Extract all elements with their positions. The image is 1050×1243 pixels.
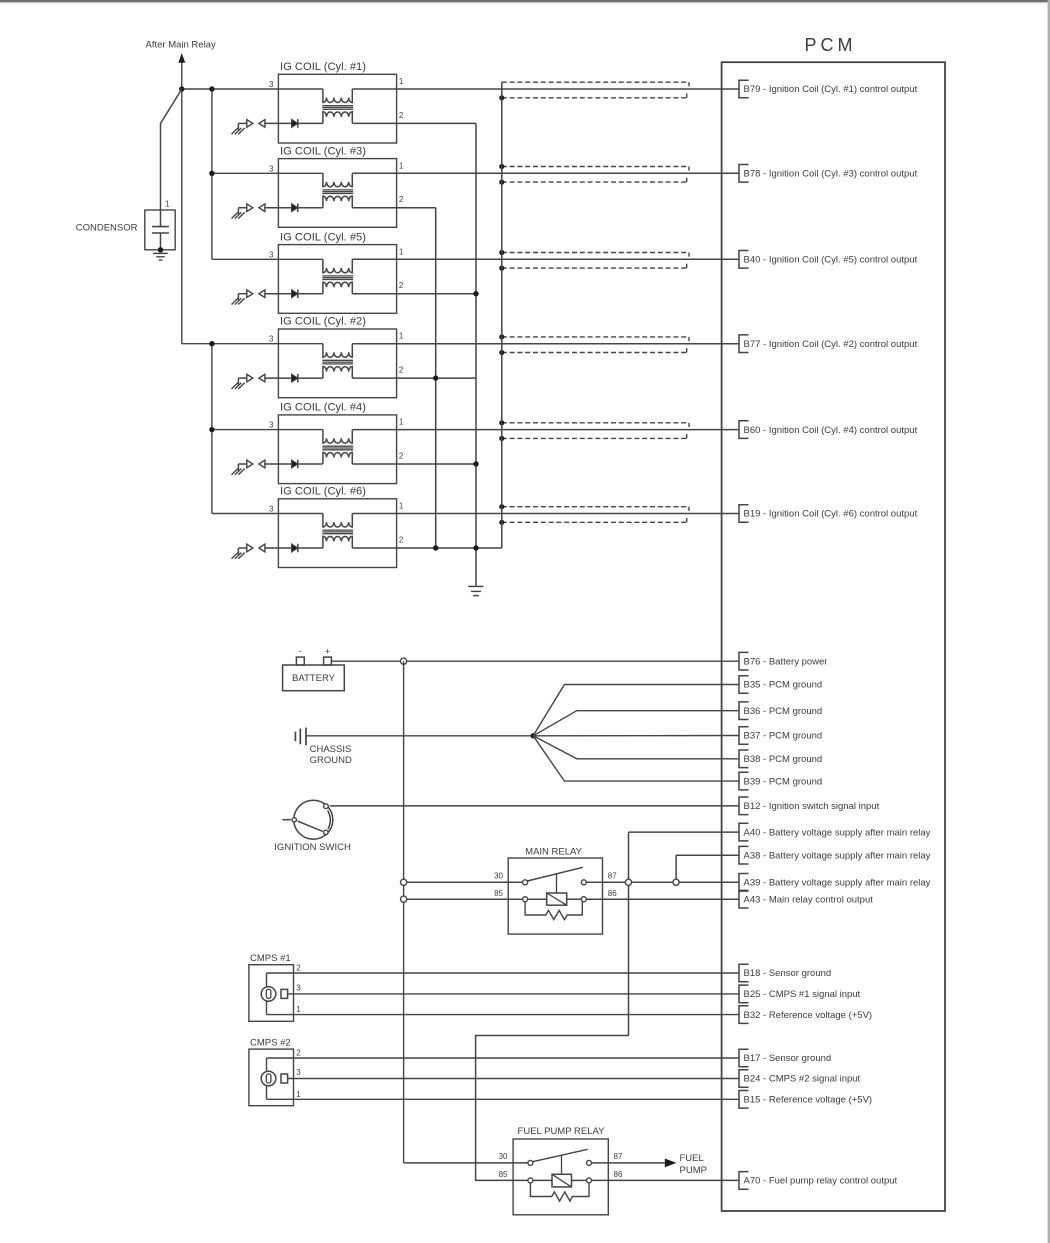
- shield drain junction: [499, 250, 504, 255]
- diode D5: [292, 289, 298, 298]
- svg-text:-: -: [299, 646, 302, 656]
- connector junction 30 feed: [401, 879, 407, 885]
- wire CMPS #1 pin 3 to PCM: [288, 993, 739, 995]
- svg-text:2: 2: [296, 964, 301, 973]
- svg-text:3: 3: [296, 1068, 301, 1077]
- wire secondary return (coils 1-5-4) vertical: [475, 123, 477, 585]
- svg-text:2: 2: [296, 1049, 301, 1058]
- shield of coil T1 wire: [502, 82, 689, 98]
- ignition coil T2 (IG COIL Cyl. #2): [278, 316, 396, 398]
- junction: [473, 291, 478, 296]
- junction: [473, 545, 478, 550]
- wire diode D1 to T1 secondary: [298, 122, 323, 124]
- capacitor C1 (CONDENSOR): [145, 210, 175, 250]
- wire coil T6 pin 2: [352, 547, 502, 549]
- wire to PCM B36: [533, 711, 739, 736]
- svg-text:3: 3: [269, 80, 274, 89]
- spark plug P5 gap: [238, 290, 265, 298]
- svg-text:A70 - Fuel pump relay control: A70 - Fuel pump relay control output: [744, 1176, 898, 1187]
- PCM pin B12: [739, 797, 880, 815]
- PCM pin B76: [739, 652, 827, 670]
- K2 pin 87: [587, 1160, 592, 1165]
- wire diode D3 to T3 secondary: [298, 207, 323, 209]
- K2 pin 85: [528, 1178, 533, 1183]
- camshaft position sensor B1 (CMPS #1): [249, 953, 294, 1021]
- junction: [209, 427, 214, 432]
- spark plug P3 ground: [232, 208, 245, 219]
- svg-text:IG COIL (Cyl. #4): IG COIL (Cyl. #4): [280, 402, 366, 414]
- shield drain junction: [499, 350, 504, 355]
- svg-text:IG COIL (Cyl. #6): IG COIL (Cyl. #6): [280, 486, 366, 498]
- spark plug P4 gap: [238, 460, 265, 468]
- svg-text:1: 1: [399, 161, 404, 170]
- svg-text:FUEL: FUEL: [680, 1153, 704, 1164]
- wire bus to coil T4 pin 3: [212, 429, 323, 431]
- wire bus to coil T6 pin 3: [212, 513, 323, 515]
- svg-text:2: 2: [399, 111, 404, 120]
- ground (condensor earth): [153, 253, 167, 260]
- wire battery bus to K1 pin 30: [404, 881, 523, 883]
- ignition coil T1 (IG COIL Cyl. #1): [278, 61, 396, 143]
- scan border top: [0, 0, 1050, 2]
- svg-text:B12 - Ignition switch signal i: B12 - Ignition switch signal input: [744, 801, 880, 812]
- spark plug P4 ground: [232, 464, 245, 475]
- PCM pin A39: [739, 874, 931, 892]
- diode D6: [292, 544, 298, 553]
- svg-text:A39 - Battery voltage supply a: A39 - Battery voltage supply after main …: [744, 878, 931, 889]
- svg-text:PCM: PCM: [805, 35, 857, 55]
- wire after-main-relay to coil T1 pin 3: [182, 88, 323, 90]
- shield drain junction: [499, 164, 504, 169]
- shield of coil T4 wire: [502, 423, 689, 439]
- wire K1 87 to PCM A39: [586, 881, 739, 883]
- K2 resistor: [530, 1183, 589, 1201]
- PCM pin B77: [739, 335, 918, 353]
- wire diode D4 to T4 secondary: [298, 463, 323, 465]
- PCM pin A43: [739, 890, 873, 908]
- junction: [433, 545, 438, 550]
- svg-text:86: 86: [614, 1170, 623, 1179]
- wire CMPS #2 pin 3 to PCM: [288, 1078, 739, 1080]
- transformer T5 secondary winding: [323, 282, 352, 294]
- PCM pin A70: [739, 1172, 898, 1190]
- svg-text:GROUND: GROUND: [310, 755, 352, 766]
- PCM pin A38: [739, 846, 931, 864]
- shield of coil T2 wire: [502, 337, 689, 353]
- wire to PCM B37: [533, 735, 739, 737]
- wire coil T5 pin 1 to PCM: [352, 258, 739, 260]
- svg-text:B32 - Reference voltage (+5V): B32 - Reference voltage (+5V): [744, 1010, 873, 1021]
- svg-text:CMPS #2: CMPS #2: [250, 1037, 291, 1048]
- ground (ignition secondary earth): [468, 586, 483, 595]
- transformer T6 core: [322, 529, 353, 531]
- svg-text:A40 - Battery voltage supply a: A40 - Battery voltage supply after main …: [744, 827, 931, 838]
- spark plug P3 gap: [238, 204, 265, 212]
- wire secondary return (coil 3) vertical: [435, 208, 437, 548]
- svg-text:2: 2: [399, 195, 404, 204]
- svg-text:B77 - Ignition Coil (Cyl. #2): B77 - Ignition Coil (Cyl. #2) control ou…: [744, 339, 918, 350]
- K1 relay coil: [528, 893, 582, 905]
- shield drain junction: [499, 180, 504, 185]
- svg-text:IG COIL (Cyl. #2): IG COIL (Cyl. #2): [280, 316, 366, 328]
- ignition coil T6 (IG COIL Cyl. #6): [278, 486, 396, 568]
- shield drain junction: [499, 504, 504, 509]
- transformer T6 secondary winding: [323, 536, 352, 548]
- wire CMPS #2 pin 1 to PCM: [267, 1098, 740, 1100]
- junction: [209, 86, 214, 91]
- wire supply bus B (coils 2-4-6): [211, 344, 213, 514]
- spark plug P2 ground: [232, 378, 245, 389]
- svg-text:1: 1: [399, 77, 404, 86]
- wire CMPS #1 pin 2 to PCM: [267, 972, 740, 974]
- transformer T1 primary winding: [323, 89, 352, 103]
- wire coil T3 pin 1 to PCM: [352, 172, 739, 174]
- K2 armature link: [561, 1155, 563, 1174]
- diode D4: [292, 460, 298, 469]
- svg-text:1: 1: [399, 418, 404, 427]
- wire battery + to PCM B76: [331, 660, 739, 662]
- svg-text:2: 2: [399, 452, 404, 461]
- transformer T4 core: [322, 445, 353, 447]
- spark plug P5 ground: [232, 294, 245, 305]
- relay K1 (MAIN RELAY): [508, 847, 602, 935]
- connector junction A40 branch: [625, 879, 631, 885]
- svg-text:3: 3: [269, 164, 274, 173]
- transformer T4 primary winding: [323, 430, 352, 444]
- PCM pin B40: [739, 251, 918, 269]
- svg-text:1: 1: [165, 200, 170, 209]
- connector junction A38 branch: [673, 879, 679, 885]
- svg-text:B39 - PCM ground: B39 - PCM ground: [744, 776, 823, 787]
- K1 resistor: [525, 902, 582, 920]
- connector junction 85 feed: [401, 896, 407, 902]
- K1 pin 86: [581, 897, 586, 902]
- K1 pin 30: [523, 880, 528, 885]
- wire CMPS #1 pin 1 to PCM: [267, 1014, 740, 1016]
- wire spark gap to diode D2: [265, 377, 292, 379]
- wire diode D5 to T5 secondary: [298, 293, 323, 295]
- wire to PCM B35: [533, 685, 739, 736]
- ignition coil T5 (IG COIL Cyl. #5): [278, 231, 396, 313]
- shield drain junction: [499, 266, 504, 271]
- K1 switch blade 30-87: [527, 867, 583, 881]
- wire 87 feed to PCM A40: [629, 831, 740, 833]
- PCM pin B60: [739, 421, 918, 439]
- wire coil T5 pin 2: [352, 293, 476, 295]
- svg-text:After Main Relay: After Main Relay: [146, 40, 216, 51]
- svg-text:B17 - Sensor ground: B17 - Sensor ground: [744, 1053, 832, 1064]
- wire to PCM B38: [533, 736, 739, 759]
- svg-text:B24 - CMPS #2 signal input: B24 - CMPS #2 signal input: [744, 1074, 861, 1085]
- wire K1 86 to PCM A43: [586, 898, 739, 900]
- svg-text:85: 85: [499, 1170, 508, 1179]
- svg-text:B60 - Ignition Coil (Cyl. #4): B60 - Ignition Coil (Cyl. #4) control ou…: [744, 425, 918, 436]
- wire coil T3 pin 2: [352, 207, 435, 209]
- wire 87 feed vertical: [628, 832, 630, 1035]
- svg-text:3: 3: [269, 421, 274, 430]
- junction: [433, 375, 438, 380]
- wire spark gap to diode D5: [265, 293, 292, 295]
- K1 armature link: [556, 874, 558, 893]
- wire battery bus vertical: [403, 661, 405, 1163]
- shield drain junction: [499, 334, 504, 339]
- PCM module box U1: [722, 62, 945, 1211]
- svg-text:1: 1: [399, 247, 404, 256]
- transformer T3 secondary winding: [323, 196, 352, 208]
- condensor ground junction: [158, 247, 163, 252]
- K2 pin 30: [528, 1160, 533, 1165]
- wire A38 branch vertical: [675, 855, 677, 882]
- PCM pin B19: [739, 505, 918, 523]
- PCM pin B79: [739, 80, 918, 98]
- svg-text:IG COIL (Cyl. #1): IG COIL (Cyl. #1): [280, 61, 366, 73]
- scan border right: [1048, 0, 1050, 1243]
- junction: [209, 341, 214, 346]
- wire diode D2 to T2 secondary: [298, 377, 323, 379]
- K2 pin 86: [587, 1178, 592, 1183]
- transformer T1 secondary winding: [323, 112, 352, 124]
- shield drain junction: [499, 420, 504, 425]
- wire K2 87 to fuel pump: [592, 1162, 665, 1164]
- svg-text:B40 - Ignition Coil (Cyl. #5): B40 - Ignition Coil (Cyl. #5) control ou…: [744, 255, 918, 266]
- diode D1: [292, 119, 298, 128]
- wire coil T2 pin 2: [352, 377, 476, 379]
- K2 relay coil: [533, 1174, 587, 1187]
- transformer T2 primary winding: [323, 344, 352, 358]
- wire coil T1 pin 2: [352, 122, 476, 124]
- svg-text:CHASSIS: CHASSIS: [310, 744, 352, 755]
- shield of coil T3 wire: [502, 167, 689, 183]
- junction: [473, 461, 478, 466]
- PCM pin B37: [739, 727, 822, 745]
- wire coil T2 pin 1 to PCM: [352, 343, 739, 345]
- svg-text:2: 2: [399, 281, 404, 290]
- PCM pin B25: [739, 985, 861, 1003]
- wire supply bus A (coils 1-3-5): [211, 89, 213, 259]
- wire CMPS #2 pin 2 to PCM: [267, 1057, 740, 1059]
- wire spark gap to diode D1: [265, 122, 292, 124]
- ignition coil T3 (IG COIL Cyl. #3): [278, 145, 396, 227]
- wire coil T4 pin 1 to PCM: [352, 429, 739, 431]
- PCM pin B32: [739, 1006, 872, 1024]
- wire K2 86 to PCM A70: [592, 1179, 740, 1181]
- spark plug P2 gap: [238, 374, 265, 382]
- svg-text:87: 87: [614, 1152, 623, 1161]
- spark plug P6 ground: [232, 548, 245, 559]
- svg-text:B18 - Sensor ground: B18 - Sensor ground: [744, 968, 832, 979]
- wire 87 feed to fuel pump relay 85: [476, 1036, 629, 1181]
- svg-text:B78 - Ignition Coil (Cyl. #3): B78 - Ignition Coil (Cyl. #3) control ou…: [744, 169, 918, 180]
- transformer T3 core: [322, 189, 353, 191]
- PCM pin B38: [739, 750, 822, 768]
- svg-text:3: 3: [269, 505, 274, 514]
- PCM pin B35: [739, 676, 822, 694]
- transformer T2 secondary winding: [323, 367, 352, 379]
- shield drain junction: [499, 95, 504, 100]
- svg-text:86: 86: [608, 889, 617, 898]
- battery BT1: [283, 646, 345, 691]
- svg-text:IGNITION SWICH: IGNITION SWICH: [274, 842, 351, 853]
- K1 pin 87: [581, 880, 586, 885]
- transformer T4 secondary winding: [323, 452, 352, 464]
- svg-text:B76 - Battery power: B76 - Battery power: [744, 656, 828, 667]
- wire coil T6 pin 1 to PCM: [352, 513, 739, 515]
- K1 pin 85: [523, 897, 528, 902]
- camshaft position sensor B2 (CMPS #2): [249, 1037, 294, 1105]
- svg-text:B37 - PCM ground: B37 - PCM ground: [744, 731, 823, 742]
- transformer T1 core: [322, 105, 353, 107]
- connector junction battery bus: [401, 658, 407, 664]
- junction ground fan-out: [531, 733, 536, 738]
- wire coil T1 pin 1 to PCM: [352, 88, 739, 90]
- svg-text:87: 87: [608, 872, 617, 881]
- junction: [179, 86, 184, 91]
- chassis ground symbol: [295, 728, 306, 746]
- wire spark gap to diode D3: [265, 207, 292, 209]
- svg-text:B35 - PCM ground: B35 - PCM ground: [744, 680, 823, 691]
- svg-text:B36 - PCM ground: B36 - PCM ground: [744, 706, 823, 717]
- PCM pin B15: [739, 1091, 872, 1109]
- svg-text:A43 - Main relay control outpu: A43 - Main relay control output: [744, 894, 874, 905]
- transformer T3 primary winding: [323, 173, 352, 187]
- relay K2 (FUEL PUMP RELAY): [513, 1126, 608, 1215]
- svg-text:MAIN RELAY: MAIN RELAY: [525, 847, 583, 858]
- PCM pin B36: [739, 702, 822, 720]
- svg-text:1: 1: [296, 1090, 301, 1099]
- wire bus to coil T5 pin 3: [212, 258, 323, 260]
- transformer T2 core: [322, 359, 353, 361]
- svg-text:B19 - Ignition Coil (Cyl. #6): B19 - Ignition Coil (Cyl. #6) control ou…: [744, 509, 918, 520]
- svg-text:30: 30: [494, 872, 503, 881]
- wire shield drain vertical: [501, 82, 503, 548]
- svg-text:3: 3: [269, 250, 274, 259]
- wire battery bus to K1 pin 85: [404, 898, 523, 900]
- svg-text:B15 - Reference voltage (+5V): B15 - Reference voltage (+5V): [744, 1095, 873, 1106]
- spark plug P1 ground: [232, 123, 245, 134]
- svg-text:B25 - CMPS #1 signal input: B25 - CMPS #1 signal input: [744, 989, 861, 1000]
- svg-text:1: 1: [296, 1005, 301, 1014]
- svg-text:2: 2: [399, 366, 404, 375]
- spark plug P6 gap: [238, 544, 265, 552]
- diode D3: [292, 203, 298, 212]
- wire after-main-relay to coil T2 pin 3: [182, 343, 323, 345]
- svg-text:+: +: [325, 647, 330, 657]
- wire battery bus to K2 pin 30: [404, 1162, 528, 1164]
- PCM pin B78: [739, 165, 918, 183]
- PCM pin B39: [739, 772, 822, 790]
- shield of coil T5 wire: [502, 253, 689, 269]
- shield drain junction: [499, 436, 504, 441]
- node After Main Relay (supply arrow): [178, 53, 185, 344]
- wire to PCM B39: [533, 736, 739, 781]
- svg-text:CONDENSOR: CONDENSOR: [76, 223, 138, 234]
- wire supply to condensor C1: [161, 89, 182, 210]
- svg-text:1: 1: [399, 332, 404, 341]
- svg-text:30: 30: [499, 1152, 508, 1161]
- diode D2: [292, 374, 298, 383]
- transformer T5 primary winding: [323, 259, 352, 273]
- transformer T6 primary winding: [323, 514, 352, 528]
- svg-text:B38 - PCM ground: B38 - PCM ground: [744, 754, 823, 765]
- PCM pin B17: [739, 1049, 831, 1067]
- svg-text:CMPS #1: CMPS #1: [250, 953, 291, 964]
- PCM pin B24: [739, 1070, 861, 1088]
- junction: [209, 171, 214, 176]
- svg-text:B79 - Ignition Coil (Cyl. #1): B79 - Ignition Coil (Cyl. #1) control ou…: [744, 84, 918, 95]
- svg-text:IG COIL (Cyl. #5): IG COIL (Cyl. #5): [280, 231, 366, 243]
- transformer T5 core: [322, 275, 353, 277]
- PCM pin A40: [739, 823, 931, 841]
- shield drain junction: [499, 520, 504, 525]
- wire diode D6 to T6 secondary: [298, 547, 323, 549]
- wire spark gap to diode D6: [265, 547, 292, 549]
- wire 87 feed to PCM A38: [676, 854, 739, 856]
- K2 switch blade 30-87: [533, 1149, 588, 1161]
- svg-text:3: 3: [296, 983, 301, 992]
- svg-text:85: 85: [494, 889, 503, 898]
- svg-text:1: 1: [399, 502, 404, 511]
- svg-text:PUMP: PUMP: [680, 1165, 707, 1176]
- ignition coil T4 (IG COIL Cyl. #4): [278, 402, 396, 484]
- wire coil T4 pin 2: [352, 463, 476, 465]
- svg-text:2: 2: [399, 536, 404, 545]
- wire ignition switch to PCM B12: [330, 805, 739, 807]
- svg-text:FUEL PUMP RELAY: FUEL PUMP RELAY: [518, 1126, 606, 1137]
- svg-text:BATTERY: BATTERY: [292, 673, 336, 684]
- svg-text:IG COIL (Cyl. #3): IG COIL (Cyl. #3): [280, 145, 366, 157]
- shield of coil T6 wire: [502, 507, 689, 523]
- svg-text:A38 - Battery voltage supply a: A38 - Battery voltage supply after main …: [744, 850, 931, 861]
- wire bus to coil T3 pin 3: [212, 172, 323, 174]
- PCM pin B18: [739, 964, 831, 982]
- wire chassis ground to PCM grounds: [306, 735, 533, 737]
- ignition switch SW1: [282, 800, 332, 839]
- arrow to fuel pump: [665, 1159, 677, 1168]
- spark plug P1 gap: [238, 120, 265, 128]
- svg-text:3: 3: [269, 335, 274, 344]
- wire spark gap to diode D4: [265, 463, 292, 465]
